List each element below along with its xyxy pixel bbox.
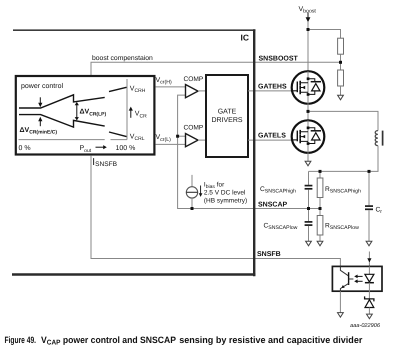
wire RSNSCAPhigh top stub <box>319 171 321 178</box>
node SNSCAP Chigh junction <box>307 207 310 210</box>
node half-bridge <box>307 110 310 113</box>
graph y-axis <box>126 79 128 140</box>
wire Cr bottom stub <box>368 210 370 241</box>
node divider rail R high <box>319 170 322 173</box>
VCR up arrow <box>129 107 133 118</box>
svg-text:COMP: COMP <box>184 125 204 132</box>
wire opto cathode to zener <box>368 291 370 300</box>
svg-text:power control: power control <box>21 82 63 90</box>
pinch up arrow <box>38 117 42 126</box>
wire RSNSCAPhigh bottom stub <box>319 198 321 209</box>
ground arrow Q2 source <box>305 161 311 166</box>
wire lower resistor to ground <box>340 86 342 95</box>
wire comp1 output <box>198 90 206 92</box>
wire comparator sense line to SNSCAP <box>178 95 320 208</box>
capacitor CSNSCAPhigh <box>305 186 313 189</box>
ground arrow RSNSCAPlow <box>317 241 323 246</box>
wire Vboost branch to boost divider <box>308 30 341 39</box>
graph x-axis <box>19 139 128 141</box>
svg-text:SNSBOOST: SNSBOOST <box>259 55 299 62</box>
optocoupler box <box>332 266 382 291</box>
wire half-bridge to resonant tank <box>308 111 378 130</box>
IC box <box>12 29 255 276</box>
pinch down arrow <box>38 97 42 107</box>
wire Vboost to high-side MOSFET drain <box>307 22 309 72</box>
node SNSBOOST junction <box>339 61 342 64</box>
wire Q2 source to ground <box>307 153 309 161</box>
wire opto emitter to ground <box>339 291 341 312</box>
Vcr bottom curve <box>19 115 127 137</box>
delta VCR(LP) arrow <box>75 102 79 121</box>
wire GATELS <box>248 139 292 141</box>
power control block <box>16 76 155 155</box>
resistor RSNSCAPlow <box>317 216 323 236</box>
gate drivers block <box>206 75 248 157</box>
svg-text:0 %: 0 % <box>19 145 31 152</box>
svg-text:SNSFB: SNSFB <box>257 251 281 258</box>
wire Vcr(L) <box>156 143 186 145</box>
wire CSNSCAPlow bottom stub <box>308 226 310 241</box>
node Vboost junction <box>307 28 310 31</box>
transistor Q2 low-side MOSFET <box>292 120 325 153</box>
ground arrow CSNSCAPlow <box>306 241 312 246</box>
svg-text:GATEHS: GATEHS <box>258 84 287 91</box>
wire comp2 sense input <box>178 135 186 137</box>
wire upper resistor to SNSBOOST junction <box>340 54 342 70</box>
ground arrow boost divider <box>338 95 344 100</box>
svg-text:sensing by resistive and capac: sensing by resistive and capacitive divi… <box>179 335 363 345</box>
wire Vcr(H) <box>156 86 186 88</box>
svg-text:COMP: COMP <box>184 76 204 83</box>
svg-text:boost compenstaion: boost compenstaion <box>92 55 153 62</box>
ground arrow opto emitter <box>338 313 344 318</box>
optocoupler phototransistor <box>340 266 353 291</box>
resistor boost divider upper <box>338 38 344 54</box>
resistor boost divider lower <box>338 70 344 86</box>
svg-text:DRIVERS: DRIVERS <box>211 117 242 124</box>
svg-text:2.5 V DC level: 2.5 V DC level <box>204 190 246 197</box>
svg-text:SNSCAP: SNSCAP <box>258 201 288 208</box>
comparator COMP2 <box>186 134 199 147</box>
wire GATEHS <box>248 90 292 92</box>
zener diode <box>365 296 374 307</box>
resistor RSNSCAPhigh <box>317 178 323 198</box>
wire RSNSCAPlow top stub <box>319 209 321 216</box>
optocoupler LED <box>365 266 374 291</box>
inductor L resonant <box>375 131 382 146</box>
ground arrow Cr <box>366 241 372 246</box>
wire Q1 source to Q2 drain <box>307 104 309 121</box>
svg-text:aaa-022906: aaa-022906 <box>350 323 381 329</box>
node divider rail Cr <box>368 170 371 173</box>
svg-text:IC: IC <box>241 33 250 43</box>
svg-text:Figure 49.: Figure 49. <box>5 335 37 345</box>
wire inductor to divider rail <box>309 146 379 172</box>
capacitor Cr <box>365 206 373 209</box>
wire SNSFB <box>91 156 340 267</box>
wire CSNSCAPhigh top stub <box>308 171 310 185</box>
wire boost compensation / SNSBOOST <box>91 62 341 76</box>
Vcr top curve <box>19 87 127 108</box>
node comp2 sense junction <box>176 135 179 138</box>
wire comp2 output <box>198 139 206 141</box>
capacitor CSNSCAPlow <box>305 222 313 225</box>
current source Ibias <box>186 175 197 209</box>
wire RSNSCAPlow bottom stub <box>319 235 321 241</box>
Ibias direction arrow <box>199 186 203 197</box>
svg-text:GATE: GATE <box>218 109 237 116</box>
wire zener to ground <box>368 308 370 315</box>
wire CSNSCAPlow top stub <box>308 209 310 222</box>
wire LED feed with arrow <box>367 252 371 267</box>
node SNSCAP Rhigh junction <box>319 207 322 210</box>
svg-text:100 %: 100 % <box>116 145 136 152</box>
node Ibias SNSCAP junction <box>191 207 194 210</box>
ground arrow zener <box>367 314 373 319</box>
optocoupler light arrows <box>354 275 362 284</box>
wire CSNSCAPhigh bottom stub <box>308 190 310 209</box>
Vboost feed arrow <box>306 13 311 23</box>
svg-text:(HB symmetry): (HB symmetry) <box>204 197 247 204</box>
figure caption <box>5 335 363 347</box>
svg-text:GATELS: GATELS <box>258 132 286 139</box>
wire Cr top stub <box>368 171 370 205</box>
transistor Q1 high-side MOSFET <box>292 71 325 104</box>
comparator COMP1 <box>186 85 199 98</box>
